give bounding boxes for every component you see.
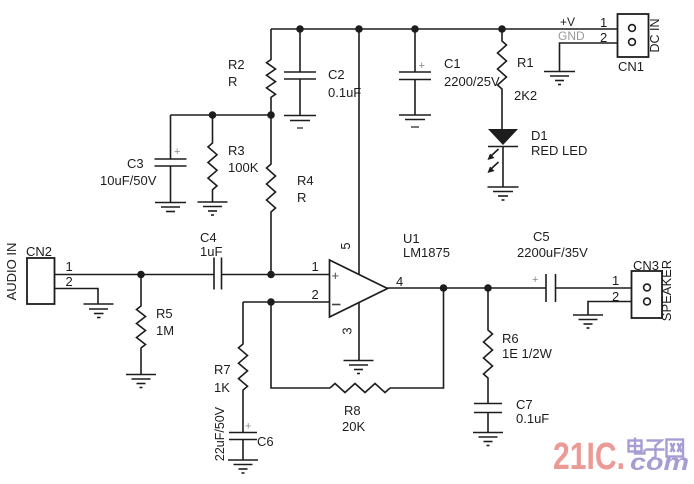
svg-text:LM1875: LM1875 bbox=[403, 245, 450, 260]
node rail/C2 junction bbox=[296, 25, 304, 33]
svg-text:D1: D1 bbox=[531, 128, 548, 143]
svg-text:1K: 1K bbox=[214, 380, 230, 395]
svg-text:C6: C6 bbox=[257, 434, 274, 449]
wire C4 to opamp pin1 bbox=[222, 274, 330, 276]
connector CN3 bbox=[632, 271, 663, 318]
svg-text:CN1: CN1 bbox=[618, 59, 644, 74]
op-amp U1 bbox=[330, 260, 388, 317]
svg-text:CN2: CN2 bbox=[26, 244, 52, 259]
capacitor C5 bbox=[546, 274, 632, 302]
svg-text:CN3: CN3 bbox=[633, 258, 659, 273]
watermark logo 21IC bbox=[553, 436, 625, 478]
resistor R2 bbox=[267, 29, 276, 115]
node output/R6 junction bbox=[484, 284, 492, 292]
resistor R6 bbox=[484, 288, 493, 404]
wire U1 output to C5 bbox=[388, 287, 547, 289]
svg-text:GND: GND bbox=[558, 29, 585, 43]
resistor R1 bbox=[498, 29, 507, 129]
ground CN3 bbox=[573, 315, 603, 328]
svg-text:0.1uF: 0.1uF bbox=[516, 411, 549, 426]
node rail/R1 junction bbox=[498, 25, 506, 33]
resistor R7 bbox=[239, 302, 248, 433]
wire CN3 pin2 to ground bbox=[588, 302, 632, 316]
svg-text:R1: R1 bbox=[517, 55, 534, 70]
svg-text:1: 1 bbox=[612, 273, 619, 288]
svg-text:R: R bbox=[228, 74, 237, 89]
wire U1 pin5 to rail bbox=[358, 29, 360, 275]
svg-text:100K: 100K bbox=[228, 160, 259, 175]
svg-text:AUDIO IN: AUDIO IN bbox=[4, 243, 19, 301]
connector CN1 bbox=[618, 14, 649, 57]
svg-text:+: + bbox=[532, 274, 538, 286]
svg-text:R4: R4 bbox=[297, 173, 314, 188]
ground under C7 bbox=[473, 433, 503, 446]
resistor R8 bbox=[330, 384, 390, 393]
node R4/pin1 junction bbox=[267, 271, 275, 279]
svg-text:2: 2 bbox=[312, 287, 319, 302]
svg-text:R2: R2 bbox=[228, 57, 245, 72]
svg-text:C4: C4 bbox=[200, 230, 217, 245]
svg-text:SPEAKER: SPEAKER bbox=[659, 260, 674, 321]
svg-text:2200/25V: 2200/25V bbox=[444, 74, 500, 89]
svg-text:22uF/50V: 22uF/50V bbox=[213, 406, 227, 461]
svg-text:C7: C7 bbox=[516, 397, 533, 412]
node pin2/R8 junction bbox=[267, 298, 275, 306]
ground CN2 bbox=[84, 304, 114, 318]
node rail/pin5 junction bbox=[355, 25, 363, 33]
ground under C3 bbox=[155, 203, 186, 212]
svg-text:2200uF/35V: 2200uF/35V bbox=[517, 245, 588, 260]
wire CN2 pin2 to ground bbox=[55, 289, 99, 305]
svg-text:+V: +V bbox=[560, 15, 575, 29]
svg-text:0.1uF: 0.1uF bbox=[328, 85, 361, 100]
ground under D1 bbox=[488, 187, 519, 200]
svg-text:C1: C1 bbox=[444, 56, 461, 71]
ground under C2 bbox=[284, 116, 316, 129]
svg-text:3: 3 bbox=[340, 327, 355, 334]
node R3 top junction bbox=[209, 111, 217, 119]
node rail/C1 junction bbox=[411, 25, 419, 33]
wire +V top rail bbox=[271, 28, 618, 30]
resistor R4 bbox=[267, 115, 276, 275]
capacitor C4 bbox=[214, 258, 222, 290]
watermark logo com bbox=[630, 449, 689, 475]
node R5 junction bbox=[137, 271, 145, 279]
connector CN2 bbox=[27, 258, 55, 304]
svg-text:C5: C5 bbox=[533, 229, 550, 244]
ground CN1 bbox=[544, 72, 575, 85]
ground under C6 bbox=[228, 460, 258, 473]
svg-text:R: R bbox=[297, 190, 306, 205]
wire feedback R8 path bbox=[271, 302, 330, 388]
svg-text:1: 1 bbox=[312, 259, 319, 274]
svg-text:1: 1 bbox=[600, 15, 607, 30]
svg-text:1M: 1M bbox=[156, 323, 174, 338]
capacitor C7 bbox=[474, 404, 502, 433]
node R2/R4 junction bbox=[267, 111, 275, 119]
svg-text:R3: R3 bbox=[228, 143, 245, 158]
svg-text:DC IN: DC IN bbox=[648, 18, 662, 52]
resistor R5 bbox=[137, 275, 146, 375]
capacitor C6 bbox=[229, 433, 257, 461]
resistor R3 bbox=[208, 115, 217, 202]
ground under C1 bbox=[399, 115, 431, 127]
svg-text:RED LED: RED LED bbox=[531, 143, 587, 158]
wire node R2/R3/C3 bbox=[171, 114, 272, 116]
svg-text:R5: R5 bbox=[156, 306, 173, 321]
svg-text:+: + bbox=[245, 421, 251, 433]
wire U1 pin3 to ground bbox=[358, 303, 360, 361]
svg-text:4: 4 bbox=[396, 274, 403, 289]
wire R8 to output bbox=[390, 288, 444, 388]
svg-text:C2: C2 bbox=[328, 67, 345, 82]
watermark logo dianziwang bbox=[629, 438, 684, 459]
ground under R5 bbox=[126, 375, 156, 388]
svg-text:R7: R7 bbox=[214, 362, 231, 377]
svg-text:2K2: 2K2 bbox=[514, 88, 537, 103]
svg-text:10uF/50V: 10uF/50V bbox=[100, 173, 157, 188]
svg-text:U1: U1 bbox=[403, 231, 420, 246]
svg-text:C3: C3 bbox=[127, 156, 144, 171]
svg-text:1: 1 bbox=[66, 259, 73, 274]
svg-text:20K: 20K bbox=[342, 419, 365, 434]
wire inverting input node bbox=[243, 301, 330, 303]
svg-text:5: 5 bbox=[338, 242, 353, 249]
LED D1 bbox=[488, 129, 519, 187]
svg-text:com: com bbox=[630, 449, 689, 475]
ground under R3 bbox=[198, 202, 228, 215]
svg-text:R8: R8 bbox=[344, 403, 361, 418]
svg-text:1uF: 1uF bbox=[200, 244, 222, 259]
svg-text:2: 2 bbox=[66, 274, 73, 289]
wire CN1 pin2 to ground bbox=[560, 43, 618, 72]
wire CN2 pin1 to C4 bbox=[55, 274, 215, 276]
capacitor C2 bbox=[284, 29, 316, 116]
capacitor C1 bbox=[399, 29, 431, 115]
svg-text:+: + bbox=[419, 60, 425, 72]
node output/R8 junction bbox=[440, 284, 448, 292]
capacitor C3 bbox=[155, 115, 187, 203]
svg-text:+: + bbox=[174, 146, 180, 158]
svg-text:+: + bbox=[332, 268, 340, 283]
ground U1 pin3 bbox=[344, 361, 374, 374]
svg-text:1E 1/2W: 1E 1/2W bbox=[502, 346, 553, 361]
svg-text:R6: R6 bbox=[502, 331, 519, 346]
svg-text:21IC.: 21IC. bbox=[553, 436, 625, 478]
